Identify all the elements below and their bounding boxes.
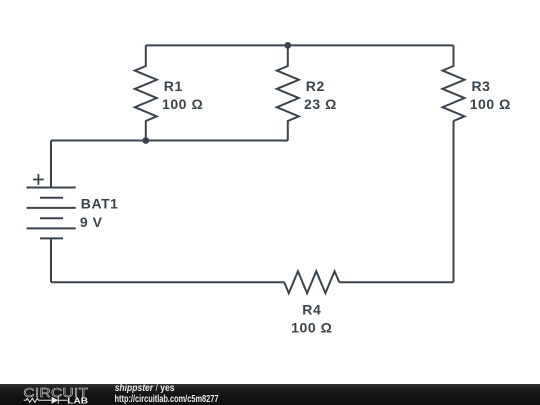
svg-text:R2: R2 [306, 78, 325, 94]
svg-text:100 Ω: 100 Ω [162, 96, 203, 112]
resistor R1 [135, 45, 157, 140]
svg-text:R4: R4 [302, 301, 321, 317]
wire R3 bottom to bottom-right corner [453, 121, 455, 282]
footer bar [0, 384, 540, 405]
battery BAT1 top lead [50, 141, 52, 188]
svg-text:100 Ω: 100 Ω [470, 96, 511, 112]
svg-text:9 V: 9 V [80, 214, 103, 230]
battery BAT1 plate 4 (negative, short) [40, 217, 63, 219]
svg-text:shippster / yes: shippster / yes [115, 384, 175, 394]
svg-text:BAT1: BAT1 [81, 196, 119, 212]
resistor R2 [277, 45, 299, 140]
resistor R4 [284, 271, 339, 293]
plus sign of BAT1 [33, 174, 44, 185]
battery BAT1 plate 3 (positive, long) [27, 207, 76, 209]
battery BAT1 plate 1 (positive, long) [27, 187, 76, 189]
wire bottom net right: R4 to bottom-right corner [339, 281, 453, 283]
wire top net: R1 top to R3 top [146, 44, 454, 46]
svg-text:100 Ω: 100 Ω [291, 319, 332, 335]
svg-text:http://circuitlab.com/c5m8277: http://circuitlab.com/c5m8277 [115, 394, 219, 405]
svg-text:R1: R1 [164, 78, 183, 94]
logo diode bar and wire to LAB [58, 397, 67, 404]
wire bottom net left: battery minus to R4 [51, 281, 284, 283]
battery BAT1 plate 5 (positive, long) [27, 227, 76, 229]
battery BAT1 bottom lead [50, 238, 52, 282]
svg-text:LAB: LAB [67, 397, 88, 405]
battery BAT1 plate 6 (negative, short) [40, 237, 63, 239]
svg-text:23 Ω: 23 Ω [304, 96, 337, 112]
node junction middle (R1 bottom) [142, 137, 149, 144]
logo diode triangle [52, 397, 59, 404]
node junction top (R2 top) [284, 42, 291, 49]
wire middle net: battery plus to R2 bottom [51, 140, 288, 142]
logo resistor zigzag [24, 397, 68, 404]
resistor R3 [443, 45, 465, 121]
svg-text:R3: R3 [472, 78, 491, 94]
battery BAT1 plate 2 (negative, short) [40, 197, 63, 199]
